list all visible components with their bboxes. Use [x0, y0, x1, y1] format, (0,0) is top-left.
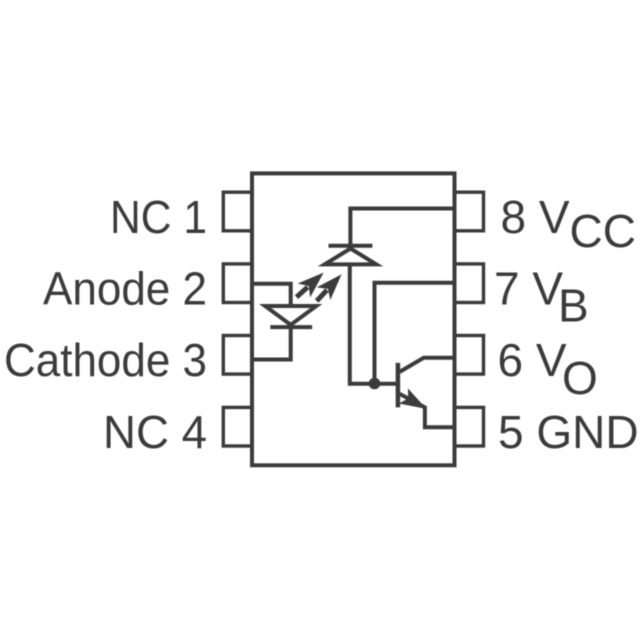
svg-text:7 VB: 7 VB [494, 263, 589, 332]
IC body U1 [252, 173, 455, 465]
pin 8 square [455, 192, 484, 231]
node junction dot [369, 378, 381, 390]
wire: photodiode anode down to base node [350, 266, 398, 384]
svg-text:8 VCC: 8 VCC [501, 191, 637, 257]
wire VCC: photodiode cathode up and right to pin 8 [350, 209, 454, 246]
svg-text:Cathode 3: Cathode 3 [4, 334, 207, 386]
pin 4 square [223, 407, 252, 446]
wire VB: node up then right to pin 7 [375, 283, 455, 384]
LED D1 anode wire from pin 2 [252, 284, 291, 306]
transistor Q1 emitter arrowhead [399, 388, 431, 416]
LED D1 cathode bar [270, 325, 312, 329]
svg-text:6 VO: 6 VO [498, 334, 598, 404]
pin 1 square [223, 192, 252, 231]
transistor Q1 emitter wire to pin 5 [400, 394, 455, 427]
light arrow 2 [310, 268, 348, 307]
pin 3 square [223, 336, 252, 375]
pin 5 square [455, 407, 484, 446]
pin 7 square [455, 264, 484, 303]
svg-text:NC 4: NC 4 [103, 406, 207, 458]
LED D1 triangle [265, 306, 316, 325]
pin 6 square [455, 336, 484, 375]
photodiode D2 triangle [325, 249, 377, 265]
light arrow 1 [290, 266, 330, 304]
svg-text:5 GND: 5 GND [498, 406, 639, 458]
transistor Q1 base bar [396, 363, 401, 408]
svg-text:NC 1: NC 1 [110, 191, 207, 243]
svg-text:Anode 2: Anode 2 [43, 263, 207, 315]
photodiode D2 cathode bar [329, 244, 373, 248]
LED D1 cathode wire to pin 3 [252, 327, 291, 359]
transistor Q1 collector wire to pin 6 [400, 358, 455, 372]
pin 2 square [223, 264, 252, 303]
